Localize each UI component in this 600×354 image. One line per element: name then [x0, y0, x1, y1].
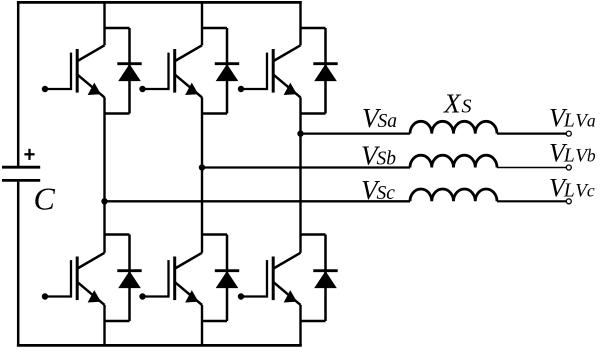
- diode D2 (freewheel across Q2): [324, 235, 327, 322]
- wire Q3 emitter-D3 anode tie: [202, 112, 227, 114]
- wire leg c emitter drop to - bus: [103, 305, 105, 347]
- wire Q3 collector-D3 cathode tie: [202, 27, 227, 29]
- capacitor C polarity + sign: [24, 153, 34, 155]
- diode D1 (freewheel across Q1): [128, 28, 131, 114]
- transistor Q4 (lower IGBT, phase c): [78, 253, 105, 269]
- wire Q1 emitter-D1 anode tie: [105, 112, 130, 114]
- wire leg b midpoint: [201, 97, 203, 252]
- inductor XS phase a: [410, 121, 497, 133]
- wire Q6 collector-D6 cathode tie: [202, 233, 227, 235]
- svg-text:C: C: [34, 181, 56, 217]
- wire leg a collector drop from + bus: [299, 1, 301, 45]
- wire Q4 collector-D4 cathode tie: [105, 233, 130, 235]
- node Q6 gate terminal dot: [139, 293, 145, 299]
- node Q4 gate terminal dot: [42, 293, 48, 299]
- node phase b tap junction: [199, 164, 205, 170]
- terminal VLVb (open circle): [566, 165, 571, 170]
- wire leg c collector drop from + bus: [103, 1, 105, 45]
- wire Q4 emitter-D4 anode tie: [105, 320, 130, 322]
- transistor Q6 (lower IGBT, phase b): [175, 253, 202, 269]
- wire VLVa lead: [497, 133, 566, 135]
- wire VLVb lead: [497, 167, 566, 169]
- inductor XS phase b: [410, 155, 497, 167]
- diode D6 (freewheel across Q6): [226, 235, 229, 322]
- capacitor C plates: [2, 166, 40, 169]
- wire leg a emitter drop to - bus: [299, 305, 301, 347]
- diode D3 (freewheel across Q3): [226, 28, 229, 114]
- inductor XS phase c: [410, 189, 497, 201]
- wire VSa phase line: [301, 132, 411, 134]
- wire VSb phase line: [202, 166, 410, 168]
- wire leg c midpoint: [103, 97, 105, 252]
- node phase c tap junction: [101, 198, 107, 204]
- wire leg b emitter drop to - bus: [201, 305, 203, 347]
- diode D5 (freewheel across Q5): [324, 28, 327, 114]
- wire negative DC bus (bottom rail): [17, 344, 302, 347]
- wire Q2 collector-D2 cathode tie: [301, 233, 326, 235]
- transistor Q3 (upper IGBT, phase b): [175, 45, 202, 61]
- node Q2 gate terminal dot: [238, 293, 244, 299]
- wire left DC-link riser (lower): [17, 182, 20, 347]
- wire VSc phase line: [105, 200, 411, 202]
- node Q3 gate terminal dot: [139, 86, 145, 92]
- wire Q2 emitter-D2 anode tie: [301, 320, 326, 322]
- node Q1 gate terminal dot: [42, 86, 48, 92]
- transistor Q5 (upper IGBT, phase a): [274, 45, 301, 61]
- wire positive DC bus (top rail): [17, 1, 302, 4]
- wire Q5 emitter-D5 anode tie: [301, 112, 326, 114]
- terminal VLVa (open circle): [566, 131, 571, 136]
- wire Q5 collector-D5 cathode tie: [301, 27, 326, 29]
- terminal VLVc (open circle): [566, 199, 571, 204]
- diode D4 (freewheel across Q4): [128, 235, 131, 322]
- node Q5 gate terminal dot: [238, 86, 244, 92]
- wire leg b collector drop from + bus: [201, 1, 203, 45]
- wire VLVc lead: [497, 200, 566, 202]
- wire leg a midpoint: [299, 97, 301, 252]
- wire Q6 emitter-D6 anode tie: [202, 320, 227, 322]
- wire left DC-link riser (upper): [17, 1, 20, 166]
- wire Q1 collector-D1 cathode tie: [105, 27, 130, 29]
- transistor Q2 (lower IGBT, phase a): [274, 253, 301, 269]
- node phase a tap junction: [297, 130, 303, 136]
- transistor Q1 (upper IGBT, phase c): [78, 45, 105, 61]
